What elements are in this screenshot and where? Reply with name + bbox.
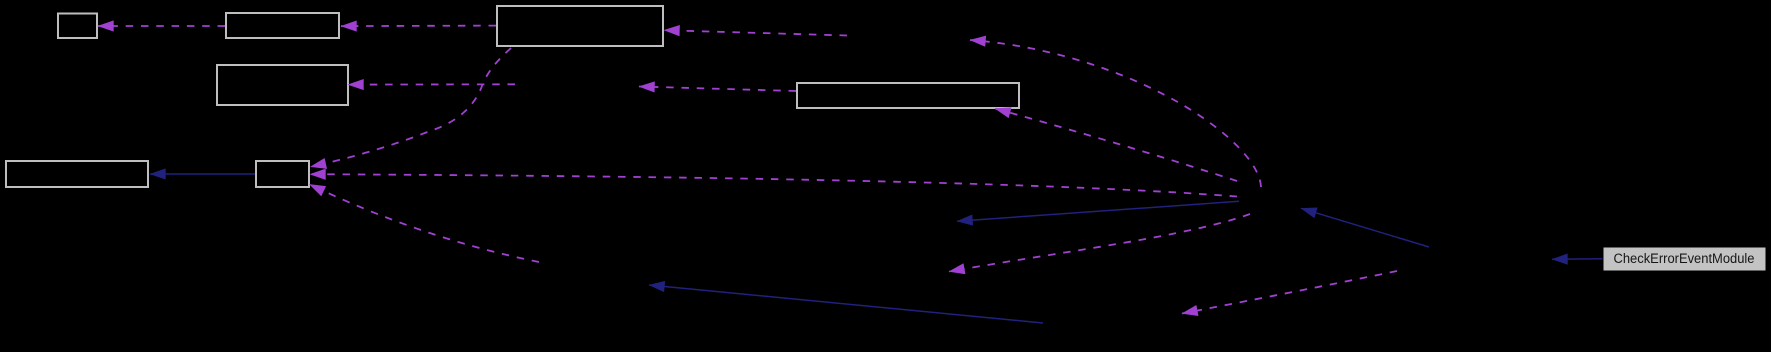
edge hiddenD to hub (solid blue) xyxy=(1301,208,1429,247)
node box4 (second row, two-line) xyxy=(217,65,348,105)
edge hiddenF to hiddenC (solid blue) xyxy=(649,285,1043,323)
edge box3 to box2 (dashed purple) xyxy=(341,25,496,28)
node box2 (top row) xyxy=(226,13,339,38)
edge hiddenB to box3 (dashed purple) xyxy=(664,30,847,35)
edge CheckErrorEventModule to hiddenD (solid blue) xyxy=(1552,258,1603,261)
node box1 (top-left small) xyxy=(58,14,97,39)
node box5 (second row right) xyxy=(797,83,1019,108)
node CheckErrorEventModule (highlighted gray) xyxy=(1603,247,1766,271)
edge hiddenD to hiddenF (dashed purple curve) xyxy=(1182,271,1397,314)
edge hiddenC to box7 (dashed purple) xyxy=(310,184,540,262)
node box3 (top row, two-line) xyxy=(497,6,663,46)
edge hiddenA to box4 (dashed purple) xyxy=(348,83,515,85)
edge hub to hiddenH (dashed purple curve) xyxy=(949,214,1250,272)
edge box3 to box7 (dashed purple curve) xyxy=(311,48,512,167)
node box6 (third row left) xyxy=(6,161,148,187)
edge hub to box7 (long dashed purple) xyxy=(310,174,1237,196)
node box7 (third row small) xyxy=(256,161,309,187)
edge hub to box5 (dashed purple curve) xyxy=(995,109,1237,182)
edge box2 to box1 (dashed purple) xyxy=(98,25,225,27)
edge hub to hiddenG (solid blue) xyxy=(957,201,1239,221)
svg-text:CheckErrorEventModule: CheckErrorEventModule xyxy=(1614,251,1755,267)
edge box7 to box6 (solid blue) xyxy=(150,173,255,175)
edge box5 to hiddenA (dashed purple) xyxy=(639,87,796,92)
edge hub to hiddenB (dashed purple curve) xyxy=(970,40,1261,187)
